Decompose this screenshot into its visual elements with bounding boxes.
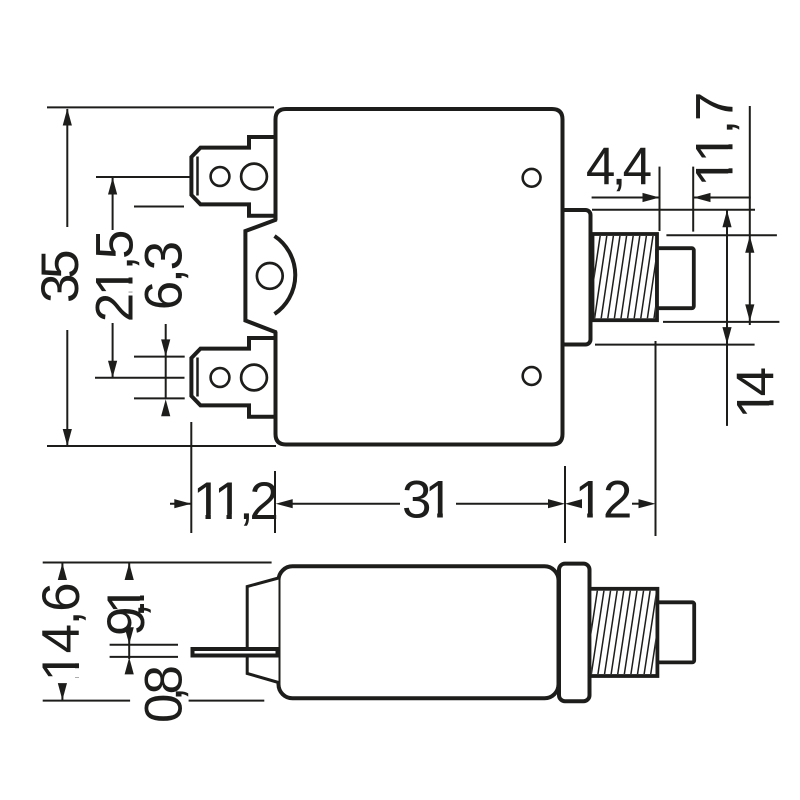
- ext line terminal T2 tip upper: [134, 356, 185, 358]
- dim line 11,7: [749, 106, 751, 325]
- ext line terminal T1 centre: [96, 176, 190, 178]
- svg-text:12: 12: [575, 471, 632, 530]
- arrow 11,2 left: [174, 499, 191, 508]
- arrow 14 down: [722, 327, 731, 344]
- arrow 14 up: [722, 210, 731, 227]
- body outline: [276, 109, 563, 445]
- ext line thread bottom: [663, 321, 779, 323]
- arrow 11,7 up: [745, 236, 754, 253]
- arrow 35 up: [63, 109, 72, 126]
- ext line terminal tip: [190, 422, 192, 533]
- side flange: [559, 564, 590, 702]
- ext line terminal T1 lower: [134, 206, 184, 208]
- arrow 14,6 down: [58, 683, 67, 700]
- arrow 6,3 down: [161, 339, 170, 356]
- arrow 6,3 up: [161, 399, 170, 416]
- svg-text:6,3: 6,3: [135, 242, 194, 310]
- terminal T2 fold line: [196, 358, 199, 397]
- body left edge over tab gap: [274, 216, 278, 221]
- white patches trimming Liberation Sans digit-1 foot serifs: [75, 135, 775, 677]
- arrow 14,6 up: [58, 563, 67, 580]
- svg-text:31: 31: [402, 471, 451, 530]
- terminal T1 large hole: [241, 164, 267, 190]
- side threaded hatch: [578, 589, 664, 675]
- dim line 14,6: [61, 564, 63, 579]
- ext line 35 top: [47, 106, 274, 108]
- svg-text:14: 14: [727, 368, 786, 418]
- screw hole bottom: [523, 367, 541, 385]
- ext line pin bottom: [110, 656, 178, 658]
- ext line 35 bottom: [47, 445, 276, 447]
- dim line 21,5: [112, 178, 114, 230]
- ext line pin top: [110, 644, 178, 646]
- svg-text:11,2: 11,2: [193, 472, 277, 531]
- dim line 31: [290, 503, 400, 505]
- svg-text:35: 35: [31, 251, 90, 303]
- mounting hole: [257, 263, 283, 289]
- screw hole top: [523, 169, 541, 187]
- arrow 31 left: [276, 499, 293, 508]
- ext line side top: [43, 562, 272, 564]
- terminal T2 small hole: [211, 368, 230, 387]
- side body: [279, 566, 559, 698]
- side pin terminal: [193, 649, 278, 656]
- ext line flange bottom: [595, 344, 755, 346]
- ext line button right: [692, 167, 694, 232]
- dim line 4,4 left: [592, 197, 660, 199]
- side mounting bracket: [247, 578, 278, 683]
- dim line 6,3: [165, 324, 167, 399]
- push button: [657, 248, 694, 308]
- arrow 4,4 right-pointing: [643, 193, 660, 202]
- terminal T2 large hole: [241, 365, 267, 391]
- arrow 35 down: [63, 429, 72, 446]
- arrow 21,5 down: [108, 361, 117, 378]
- arrow 4,4 left-pointing: [694, 193, 711, 202]
- side push button: [657, 602, 694, 662]
- terminal T1 fold line: [196, 157, 199, 196]
- side threaded bushing: [590, 589, 658, 676]
- arrow 0,8 up: [125, 657, 134, 674]
- dim line 9,1: [128, 564, 130, 581]
- svg-text:14,6: 14,6: [32, 584, 91, 682]
- threaded bushing hatch: [581, 233, 667, 321]
- arrow 9,1 down: [125, 627, 134, 644]
- threaded bushing outline: [593, 234, 658, 320]
- mounting tab: [245, 220, 276, 333]
- ext line thread end: [655, 341, 657, 536]
- ext line flange top: [592, 209, 755, 211]
- dim line 35: [66, 109, 68, 227]
- arrow 21,5 up: [108, 178, 117, 195]
- dim line 4,4 right: [694, 197, 751, 199]
- arrow 9,1 up: [125, 563, 134, 580]
- mounting boss arc: [275, 236, 296, 314]
- svg-text:11,7: 11,7: [686, 93, 745, 187]
- bottom dimension chain: [170, 341, 656, 543]
- ext line button left: [659, 167, 661, 231]
- arrow 12 right: [639, 499, 656, 508]
- terminal T1 small hole: [211, 167, 230, 186]
- arrow 11,7 down: [745, 304, 754, 321]
- svg-text:0,8: 0,8: [135, 666, 194, 723]
- terminal T2 (lower spade): [191, 338, 276, 417]
- dim line 12: [576, 503, 580, 505]
- ext line terminal T2 tip lower: [134, 397, 185, 399]
- right side dimensions: [592, 106, 780, 426]
- dim line 11,2 tail: [170, 503, 191, 505]
- dim line 14: [726, 211, 728, 345]
- ext line thread top: [666, 234, 777, 236]
- ext line body right: [564, 466, 566, 543]
- arrow 12 left: [565, 499, 582, 508]
- terminal T1 (upper spade): [191, 137, 276, 216]
- svg-text:4,4: 4,4: [586, 137, 651, 196]
- ext line terminal T2 centre: [95, 377, 185, 379]
- arrow 31 right: [548, 499, 565, 508]
- ext line side bottom: [43, 700, 130, 702]
- flange (bushing plate): [560, 210, 591, 345]
- ext line body left: [274, 471, 276, 533]
